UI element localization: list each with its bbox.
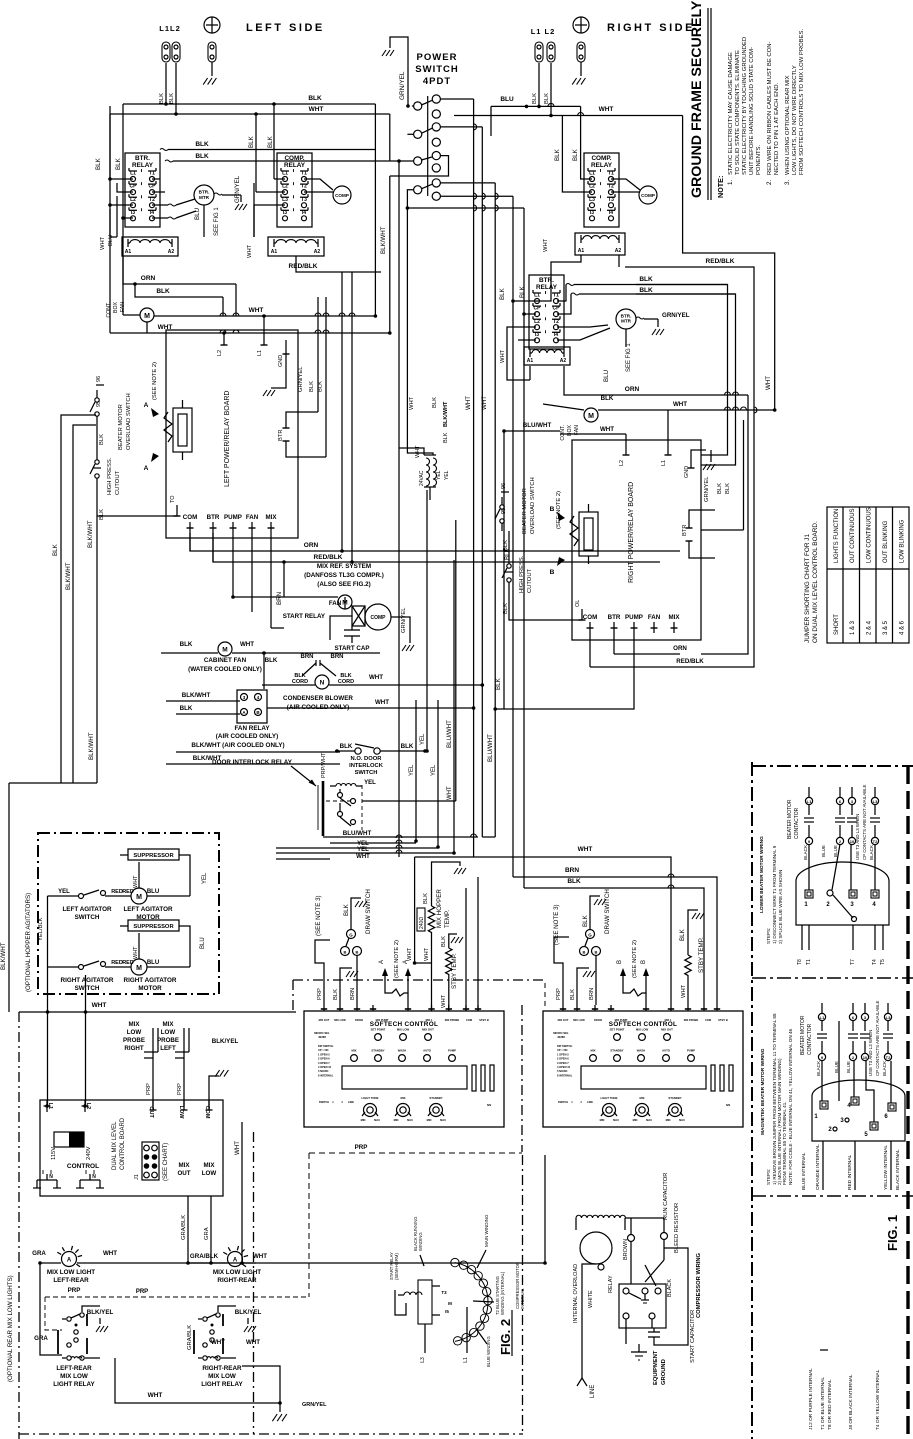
svg-text:HIGH PRESS.: HIGH PRESS. [519, 555, 525, 593]
svg-text:BLK/YEL: BLK/YEL [212, 1038, 239, 1045]
svg-text:BEATER MOTOR: BEATER MOTOR [800, 1015, 806, 1055]
svg-text:BLUE INTERNAL: BLUE INTERNAL [801, 1152, 807, 1190]
svg-text:YEL: YEL [436, 470, 442, 480]
svg-text:LEFT AGITATOR: LEFT AGITATOR [62, 906, 112, 913]
svg-text:A: A [144, 465, 149, 472]
svg-text:MIX: MIX [178, 1162, 190, 1169]
svg-text:L3: L3 [282, 197, 288, 203]
svg-text:MIX: MIX [203, 1162, 215, 1169]
svg-text:COM: COM [705, 1018, 711, 1022]
svg-text:WHT: WHT [415, 445, 421, 458]
svg-text:BLUE: BLUE [846, 1061, 851, 1073]
svg-text:WHT: WHT [253, 1253, 267, 1260]
svg-text:(OPTIONAL HOPPER AGITATORS): (OPTIONAL HOPPER AGITATORS) [25, 893, 32, 992]
svg-text:40286: 40286 [318, 1035, 326, 1039]
svg-text:SWITCH: SWITCH [415, 64, 458, 75]
svg-text:N: N [92, 1174, 96, 1180]
svg-text:SWITCH: SWITCH [319, 1100, 329, 1104]
svg-text:BLK: BLK [432, 397, 438, 408]
svg-text:B: B [550, 569, 555, 576]
svg-text:BLK/WHT: BLK/WHT [65, 562, 72, 590]
svg-text:MAX: MAX [646, 1118, 652, 1122]
svg-text:MIN: MIN [600, 1118, 605, 1122]
svg-text:WHT: WHT [247, 244, 253, 258]
svg-text:FIG. 1: FIG. 1 [885, 1215, 900, 1251]
svg-text:BLK: BLK [318, 381, 324, 392]
svg-text:MAX: MAX [407, 1118, 413, 1122]
svg-text:CP: CP [130, 184, 138, 190]
svg-text:B: B [583, 950, 586, 955]
svg-text:B: B [617, 960, 623, 964]
svg-text:RELAY: RELAY [608, 1275, 614, 1293]
svg-text:L1: L1 [807, 799, 812, 804]
svg-text:(SEMI-HERM): (SEMI-HERM) [394, 1253, 399, 1280]
svg-text:240Ω: 240Ω [419, 917, 425, 929]
svg-text:L1: L1 [282, 171, 288, 177]
svg-text:MAX: MAX [679, 1118, 685, 1122]
svg-text:BLK: BLK [572, 148, 579, 161]
svg-text:POWER: POWER [417, 52, 458, 63]
svg-text:PUMP: PUMP [448, 1049, 456, 1053]
svg-text:COMP: COMP [371, 615, 387, 621]
svg-text:8 INTERNAL: 8 INTERNAL [557, 1073, 573, 1077]
svg-text:J12 OR PURPLE INTERNAL: J12 OR PURPLE INTERNAL [808, 1368, 814, 1430]
svg-text:CONDENSER BLOWER: CONDENSER BLOWER [283, 695, 353, 702]
svg-text:BLUE: BLUE [833, 845, 838, 857]
svg-text:COMP: COMP [335, 193, 349, 198]
svg-text:WHT: WHT [465, 396, 472, 410]
svg-text:L3: L3 [420, 1357, 426, 1363]
svg-text:DRAW: DRAW [355, 1018, 363, 1022]
svg-text:YEL: YEL [431, 764, 437, 776]
svg-text:(SEE NOTE 2): (SEE NOTE 2) [632, 940, 638, 978]
svg-text:BRN: BRN [589, 988, 595, 1000]
svg-text:BTR: BTR [682, 524, 688, 536]
svg-text:OUT: OUT [177, 1170, 190, 1177]
svg-text:4 OPEN 10: 4 OPEN 10 [318, 1065, 332, 1069]
svg-text:2) SPLICE BLUE WIRE AS SHOWN: 2) SPLICE BLUE WIRE AS SHOWN [778, 870, 783, 944]
svg-text:MIX LOW: MIX LOW [60, 1373, 88, 1380]
svg-text:MOTOR: MOTOR [138, 985, 162, 992]
svg-text:ORN: ORN [304, 542, 319, 549]
svg-text:G: G [349, 933, 353, 938]
svg-text:BLK: BLK [95, 157, 102, 170]
svg-text:WHT: WHT [103, 1250, 117, 1257]
svg-text:MIX PUMP: MIX PUMP [376, 1018, 389, 1022]
svg-text:BLEED RESISTOR: BLEED RESISTOR [674, 1203, 680, 1253]
svg-text:BLU/WHT: BLU/WHT [343, 830, 372, 837]
svg-text:CUTOUT: CUTOUT [527, 568, 533, 593]
svg-text:MIX: MIX [128, 1021, 140, 1028]
svg-text:T3: T3 [301, 197, 307, 203]
svg-text:BRN: BRN [565, 867, 579, 874]
svg-text:BLU/WHT: BLU/WHT [487, 734, 494, 762]
svg-text:MIX PROBE: MIX PROBE [684, 1018, 699, 1022]
svg-text:BLK/WHT: BLK/WHT [88, 732, 95, 760]
svg-text:FAN RELAY: FAN RELAY [234, 725, 270, 732]
svg-text:L1: L1 [130, 171, 136, 177]
svg-text:BTR.: BTR. [135, 155, 150, 162]
svg-text:STEPS:: STEPS: [766, 1169, 771, 1185]
svg-text:SUPPRESSOR: SUPPRESSOR [133, 924, 174, 930]
svg-text:MIX LOW: MIX LOW [573, 1018, 585, 1022]
svg-text:GRN/YEL: GRN/YEL [399, 71, 406, 100]
svg-text:LINE: LINE [587, 1100, 593, 1104]
svg-text:BLU/WHT: BLU/WHT [446, 720, 453, 748]
svg-text:WHEN USING OPTIONAL REAR MIX: WHEN USING OPTIONAL REAR MIX [785, 75, 791, 175]
svg-text:WHT: WHT [148, 1392, 163, 1399]
svg-text:(SEE CHART): (SEE CHART) [163, 1143, 169, 1181]
svg-text:I4: I4 [302, 210, 306, 216]
svg-text:RIGHT SIDE: RIGHT SIDE [607, 22, 695, 34]
svg-text:96: 96 [96, 376, 102, 382]
svg-text:N: N [320, 680, 325, 687]
svg-text:WHT: WHT [447, 786, 453, 800]
svg-text:T1: T1 [149, 171, 155, 177]
svg-text:MAIN WINDING: MAIN WINDING [484, 1214, 489, 1247]
svg-text:MIN: MIN [633, 1118, 638, 1122]
svg-text:BLACK: BLACK [803, 844, 808, 860]
svg-text:WHT: WHT [234, 1141, 241, 1155]
svg-text:1.: 1. [727, 180, 734, 185]
svg-text:PROBE: PROBE [157, 1037, 179, 1044]
svg-text:BLACK: BLACK [816, 1060, 821, 1076]
svg-text:RIGHT-REAR: RIGHT-REAR [217, 1277, 257, 1284]
svg-text:(SEE NOTE 2): (SEE NOTE 2) [394, 940, 400, 978]
svg-text:BLK: BLK [601, 395, 614, 402]
svg-text:WHT: WHT [407, 947, 413, 961]
svg-text:RED: RED [122, 960, 134, 966]
svg-text:RELAY: RELAY [284, 162, 306, 169]
svg-text:SUPPRESSOR: SUPPRESSOR [133, 853, 174, 859]
svg-text:2 OPEN 6: 2 OPEN 6 [557, 1057, 569, 1061]
svg-text:M: M [448, 1301, 452, 1306]
svg-text:PRP: PRP [355, 1144, 368, 1151]
svg-text:BLK: BLK [169, 93, 175, 104]
svg-text:TO SOLID STATE COMPONENTS. EL: TO SOLID STATE COMPONENTS. ELIMINATE [735, 50, 741, 175]
svg-text:T2: T2 [553, 319, 559, 325]
svg-text:YEL: YEL [444, 470, 450, 480]
svg-text:LEFT POWER/RELAY BOARD: LEFT POWER/RELAY BOARD [224, 391, 231, 487]
svg-text:WASH: WASH [398, 1049, 406, 1053]
svg-text:3.: 3. [784, 180, 791, 185]
svg-text:CONTROL BOARD: CONTROL BOARD [120, 1117, 126, 1170]
svg-text:AUTO: AUTO [423, 1049, 432, 1053]
svg-text:BLACK: BLACK [869, 844, 874, 860]
svg-text:YEL/BLK: YEL/BLK [38, 917, 44, 941]
svg-text:CUTOUT: CUTOUT [115, 470, 121, 495]
svg-text:A1: A1 [271, 249, 278, 255]
svg-text:JUMPER SHORTING CHART FOR J1: JUMPER SHORTING CHART FOR J1 [804, 534, 811, 643]
svg-text:L3: L3 [886, 1015, 891, 1020]
svg-text:INTERNAL OVERLOAD: INTERNAL OVERLOAD [573, 1264, 579, 1323]
svg-text:YEL: YEL [58, 889, 70, 895]
svg-text:L1: L1 [661, 460, 667, 466]
svg-text:BLU: BLU [194, 208, 201, 220]
svg-text:WHT: WHT [481, 396, 488, 410]
svg-text:A: A [233, 1257, 238, 1263]
svg-text:BLK: BLK [443, 432, 449, 443]
svg-text:ORANGE INTERNAL: ORANGE INTERNAL [815, 1144, 821, 1190]
svg-text:LOWER BEATER MOTOR WIRING: LOWER BEATER MOTOR WIRING [759, 836, 765, 913]
svg-text:FAN: FAN [648, 614, 661, 621]
svg-text:CP: CP [149, 184, 157, 190]
svg-text:MIX REF. SYSTEM: MIX REF. SYSTEM [317, 563, 371, 570]
svg-text:MAGNETEK BEATER MOTOR WIRING: MAGNETEK BEATER MOTOR WIRING [760, 1048, 766, 1135]
svg-text:YEL: YEL [202, 872, 208, 884]
svg-text:DUAL MIX LEVEL: DUAL MIX LEVEL [112, 1121, 118, 1170]
svg-text:SWITCH: SWITCH [558, 1100, 568, 1104]
svg-text:LIGHT RELAY: LIGHT RELAY [53, 1381, 95, 1388]
svg-text:3 & 5: 3 & 5 [883, 620, 889, 635]
svg-text:3 OPEN 7: 3 OPEN 7 [318, 1061, 330, 1065]
svg-text:1 OPEN 5: 1 OPEN 5 [318, 1052, 330, 1056]
svg-text:1 & 3: 1 & 3 [850, 620, 856, 635]
svg-text:OL: OL [575, 600, 581, 607]
svg-text:WHT: WHT [240, 641, 254, 648]
svg-text:YEL: YEL [409, 764, 415, 776]
svg-text:COMP.: COMP. [591, 155, 611, 162]
svg-text:COM: COM [183, 514, 197, 521]
svg-text:BLK: BLK [115, 157, 122, 170]
svg-text:DOOR INTERLOCK RELAY: DOOR INTERLOCK RELAY [212, 759, 293, 766]
svg-text:LEFT SIDE: LEFT SIDE [246, 22, 325, 34]
svg-text:(DANFOSS TL3G COMPR.): (DANFOSS TL3G COMPR.) [304, 572, 384, 579]
svg-text:DIP SWITCH: DIP SWITCH [318, 1044, 333, 1048]
svg-text:BLUE: BLUE [834, 1061, 839, 1073]
svg-text:240V: 240V [86, 1146, 92, 1160]
svg-text:CONTROL: CONTROL [67, 1163, 99, 1170]
svg-text:TEMP.: TEMP. [444, 910, 451, 928]
svg-text:BLK/YEL: BLK/YEL [87, 1309, 114, 1316]
svg-text:J8 OR BLACK INTERNAL: J8 OR BLACK INTERNAL [848, 1374, 854, 1430]
svg-text:HIGH PRESS.: HIGH PRESS. [107, 457, 113, 495]
svg-text:PRP: PRP [146, 1083, 152, 1095]
svg-text:BLK: BLK [639, 276, 653, 283]
svg-text:GRN/YEL: GRN/YEL [662, 312, 690, 319]
svg-text:USE T3 AND L3 WHEN: USE T3 AND L3 WHEN [855, 814, 860, 860]
svg-text:BLK: BLK [99, 509, 105, 520]
svg-text:WHT: WHT [409, 396, 415, 410]
svg-text:BLK: BLK [495, 677, 502, 690]
svg-text:SEE FIG 1: SEE FIG 1 [214, 207, 220, 236]
svg-text:CP CONTACTS ARE NOT AVAILABLE: CP CONTACTS ARE NOT AVAILABLE [862, 784, 867, 860]
svg-text:MIX LOW LIGHT: MIX LOW LIGHT [47, 1269, 95, 1276]
svg-text:ON DUAL MIX LEVEL CONTROL BOAR: ON DUAL MIX LEVEL CONTROL BOARD. [812, 521, 819, 643]
svg-text:OUT CONTINUOUS: OUT CONTINUOUS [850, 508, 856, 563]
svg-text:START CAP: START CAP [335, 645, 370, 652]
svg-text:L1: L1 [257, 350, 263, 356]
svg-text:M: M [222, 647, 227, 654]
svg-text:ORN: ORN [673, 645, 687, 652]
svg-text:BEATER MOTOR: BEATER MOTOR [118, 404, 124, 450]
svg-text:T1: T1 [806, 959, 812, 965]
svg-text:MTR: MTR [621, 319, 632, 324]
svg-text:I3: I3 [283, 210, 287, 216]
svg-text:5 NO/NC: 5 NO/NC [557, 1069, 568, 1073]
svg-text:BTR.: BTR. [539, 277, 554, 284]
svg-text:BTR: BTR [608, 614, 621, 621]
svg-text:N: N [49, 1174, 53, 1180]
svg-text:SWITCH: SWITCH [75, 985, 100, 992]
svg-text:WHT: WHT [424, 947, 430, 961]
svg-text:J1: J1 [134, 1174, 140, 1180]
svg-text:INTERLOCK: INTERLOCK [349, 763, 384, 769]
svg-text:FROM SOFTECH CONTROLS TO MIX L: FROM SOFTECH CONTROLS TO MIX LOW PROBES. [799, 29, 805, 175]
svg-text:T3: T3 [441, 1290, 447, 1295]
svg-text:BLK: BLK [519, 285, 526, 298]
svg-text:WHT: WHT [681, 984, 687, 998]
svg-text:(WATER COOLED ONLY): (WATER COOLED ONLY) [188, 666, 262, 673]
svg-text:GROUND: GROUND [661, 1359, 667, 1385]
svg-text:BLK: BLK [156, 288, 170, 295]
svg-text:WHT: WHT [543, 238, 549, 252]
svg-text:BTR.: BTR. [199, 190, 210, 195]
svg-text:WHT: WHT [309, 106, 324, 113]
svg-text:WHT: WHT [133, 875, 139, 888]
svg-text:STBY TEMP.: STBY TEMP. [698, 937, 705, 973]
svg-text:BLU: BLU [200, 937, 206, 949]
svg-text:BLUE WINDING: BLUE WINDING [486, 1336, 491, 1367]
svg-text:BLK: BLK [554, 148, 561, 161]
svg-text:AUTO: AUTO [662, 1049, 671, 1053]
svg-text:STATIC ELECTRICITY MAY CAUSE D: STATIC ELECTRICITY MAY CAUSE DAMAGE [728, 52, 734, 175]
svg-text:4 OPEN 10: 4 OPEN 10 [557, 1065, 571, 1069]
svg-text:DRAW SWITCH: DRAW SWITCH [365, 889, 372, 934]
svg-text:SWITCH: SWITCH [355, 770, 378, 776]
svg-text:I3: I3 [590, 210, 594, 216]
svg-text:BLUE: BLUE [821, 845, 826, 857]
svg-text:LEFT: LEFT [160, 1045, 176, 1052]
svg-text:A1: A1 [578, 248, 585, 254]
svg-text:GRA/BLK: GRA/BLK [190, 1253, 219, 1260]
svg-text:RED/BLK: RED/BLK [289, 263, 318, 270]
svg-text:GRN/YEL: GRN/YEL [704, 476, 710, 502]
svg-text:T1: T1 [301, 171, 307, 177]
svg-text:RIGHT AGITATOR: RIGHT AGITATOR [61, 977, 114, 984]
svg-text:M: M [136, 894, 142, 901]
svg-text:PUMP: PUMP [224, 514, 242, 521]
svg-text:L2: L2 [282, 184, 288, 190]
svg-text:WINDING: WINDING [418, 1232, 423, 1251]
svg-text:MIX PROBE: MIX PROBE [445, 1018, 460, 1022]
svg-text:1 OPEN 5: 1 OPEN 5 [557, 1052, 569, 1056]
svg-text:WHT: WHT [599, 106, 614, 113]
svg-text:T1 OR BLUE INTERNAL: T1 OR BLUE INTERNAL [820, 1377, 826, 1430]
svg-text:COMPRESSOR WIRING: COMPRESSOR WIRING [696, 1252, 702, 1318]
svg-text:CP CONTACTS ARE NOT AVAILABLE: CP CONTACTS ARE NOT AVAILABLE [875, 1000, 880, 1076]
svg-text:LIGHT TONE: LIGHT TONE [362, 1096, 379, 1100]
svg-text:A2: A2 [615, 248, 622, 254]
svg-text:TO: TO [170, 495, 176, 503]
svg-text:A1: A1 [125, 249, 132, 255]
svg-text:MIX: MIX [162, 1021, 174, 1028]
svg-text:I4: I4 [554, 332, 558, 338]
svg-text:T5: T5 [880, 959, 886, 965]
svg-text:M: M [588, 413, 594, 420]
svg-text:BLK: BLK [308, 95, 322, 102]
svg-text:CABINET FAN: CABINET FAN [204, 657, 247, 664]
svg-text:STBY B: STBY B [479, 1018, 489, 1022]
svg-text:MIX: MIX [352, 1049, 357, 1053]
svg-text:STATIC ELECTRICITY BY TOUCHING: STATIC ELECTRICITY BY TOUCHING GROUNDED [742, 37, 748, 175]
svg-text:BLK: BLK [423, 893, 429, 904]
svg-text:PONENTS.: PONENTS. [756, 145, 762, 175]
svg-text:S/N: S/N [487, 1103, 491, 1107]
svg-text:BLU: BLU [603, 370, 610, 382]
svg-text:L1L2: L1L2 [159, 24, 181, 33]
svg-text:DRAW: DRAW [594, 1018, 602, 1022]
svg-text:MIX LOW: MIX LOW [397, 1028, 410, 1032]
svg-text:STEPS:: STEPS: [766, 928, 771, 944]
svg-text:GRA: GRA [204, 1227, 210, 1240]
svg-text:BLK: BLK [340, 743, 353, 750]
svg-text:USE T3 AND L3 WHEN: USE T3 AND L3 WHEN [868, 1030, 873, 1076]
svg-text:BLK: BLK [248, 135, 255, 148]
svg-text:NECTED TO PIN 1 AT EACH END.: NECTED TO PIN 1 AT EACH END. [774, 82, 780, 175]
svg-text:MIX OUT: MIX OUT [558, 1018, 569, 1022]
svg-text:PRP/WHT: PRP/WHT [321, 752, 327, 778]
svg-text:FIG. 2: FIG. 2 [498, 1319, 513, 1355]
svg-text:SET POINT: SET POINT [371, 1028, 386, 1032]
svg-text:BLK: BLK [99, 434, 105, 445]
svg-text:BLU: BLU [147, 889, 159, 895]
svg-text:BLK: BLK [309, 381, 315, 392]
svg-text:BLK: BLK [267, 135, 274, 148]
svg-text:CONT.: CONT. [560, 425, 566, 441]
svg-text:WHT: WHT [375, 699, 389, 706]
svg-text:L2: L2 [130, 197, 136, 203]
svg-text:RED: RED [111, 960, 123, 966]
svg-text:BLK: BLK [717, 483, 723, 494]
svg-text:LOW: LOW [178, 1106, 184, 1120]
svg-text:T2: T2 [886, 1055, 891, 1060]
svg-text:WHT: WHT [441, 994, 447, 1008]
svg-text:BLK: BLK [180, 641, 193, 648]
svg-text:MIX LOW: MIX LOW [208, 1373, 236, 1380]
svg-text:PRP: PRP [556, 988, 562, 1000]
svg-text:I3: I3 [535, 332, 539, 338]
svg-text:LOW: LOW [127, 1029, 142, 1036]
svg-text:LIGHTS FUNCTION: LIGHTS FUNCTION [834, 509, 840, 563]
svg-text:3 OPEN 7: 3 OPEN 7 [557, 1061, 569, 1065]
svg-text:YEL: YEL [420, 733, 426, 745]
svg-text:L1 L2: L1 L2 [531, 27, 556, 36]
svg-text:BEATER MOTOR: BEATER MOTOR [787, 799, 793, 839]
svg-text:T2: T2 [608, 184, 614, 190]
svg-text:MIN: MIN [427, 1118, 432, 1122]
svg-text:PROBE: PROBE [123, 1037, 145, 1044]
svg-text:BLU: BLU [500, 96, 514, 103]
svg-text:I4: I4 [609, 210, 613, 216]
svg-text:L2: L2 [589, 184, 595, 190]
svg-text:MIX: MIX [640, 1096, 645, 1100]
svg-text:BLK: BLK [567, 878, 581, 885]
svg-text:LIGHT TONE: LIGHT TONE [601, 1096, 618, 1100]
svg-text:LOW BLINKING: LOW BLINKING [900, 519, 906, 563]
svg-text:(SEE NOTE 3): (SEE NOTE 3) [315, 895, 322, 936]
svg-text:UP = ON: UP = ON [557, 1048, 568, 1052]
svg-text:BLU/WHT: BLU/WHT [523, 422, 552, 429]
svg-text:WHT: WHT [249, 307, 264, 314]
svg-text:BLK: BLK [441, 936, 447, 947]
svg-text:L3: L3 [873, 799, 878, 804]
svg-text:WHT: WHT [578, 846, 593, 853]
svg-text:START RELAY: START RELAY [283, 613, 326, 620]
svg-text:T8 OR RED INTERNAL: T8 OR RED INTERNAL [827, 1379, 833, 1430]
svg-text:BLK: BLK [343, 903, 350, 916]
svg-text:M: M [144, 313, 150, 320]
